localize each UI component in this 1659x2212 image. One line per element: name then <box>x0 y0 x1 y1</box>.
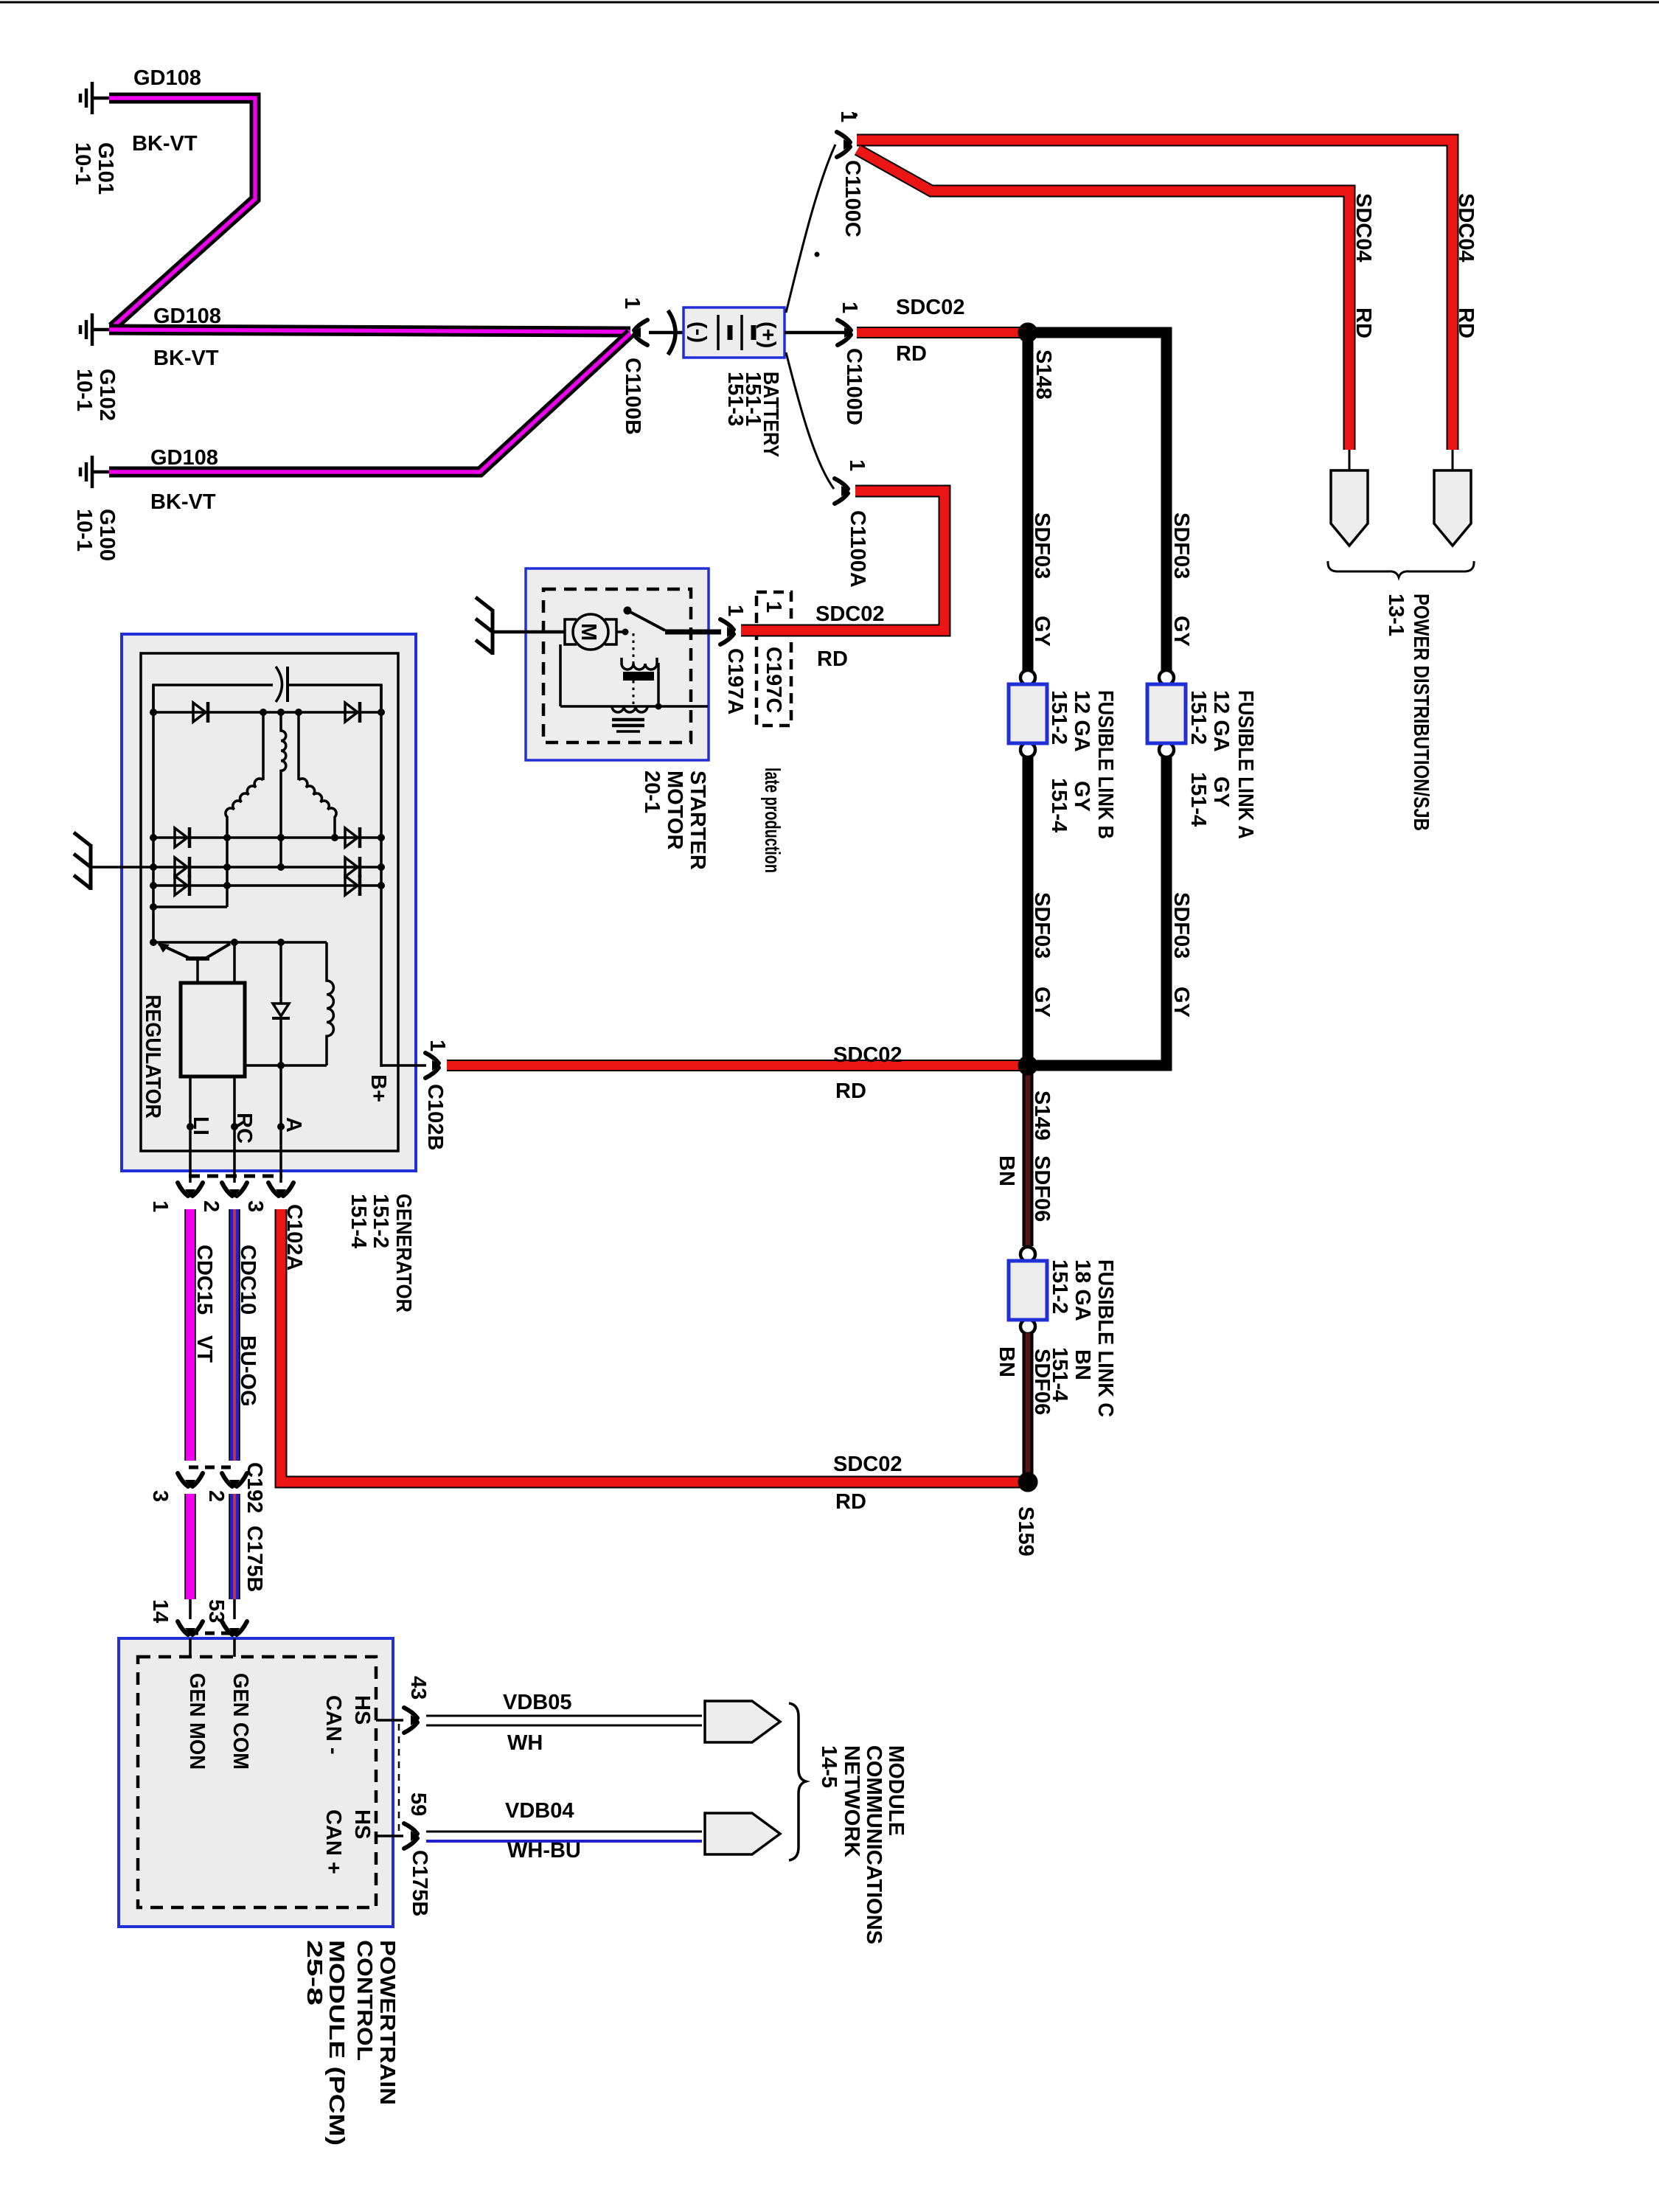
generator box <box>122 634 416 1171</box>
starter switch <box>616 630 625 633</box>
svg-text:13-1: 13-1 <box>1384 594 1408 636</box>
network pentagon connector (CAN-) <box>705 1701 780 1742</box>
svg-text:SDC02: SDC02 <box>833 1043 902 1067</box>
svg-text:MODULE: MODULE <box>884 1745 908 1836</box>
svg-text:BK-VT: BK-VT <box>150 490 216 514</box>
wire SDF03 GY (S148 right and down to fusible link A) <box>1032 333 1166 672</box>
connector C1100A <box>835 479 849 504</box>
ground G101 <box>80 82 92 114</box>
svg-text:C192: C192 <box>243 1462 266 1513</box>
splice S148 <box>1018 323 1038 343</box>
svg-text:12 GA: 12 GA <box>1209 690 1233 752</box>
svg-text:RD: RD <box>835 1079 866 1103</box>
svg-text:S159: S159 <box>1014 1506 1037 1557</box>
svg-text:151-2: 151-2 <box>1186 690 1210 745</box>
connector C175B bracket at PCM <box>189 1632 236 1635</box>
svg-text:SDF03: SDF03 <box>1030 892 1054 959</box>
connector C197A <box>720 619 735 644</box>
starter motor box <box>526 568 709 760</box>
svg-text:GEN MON: GEN MON <box>185 1673 209 1770</box>
svg-text:GY: GY <box>1209 776 1233 807</box>
generator field top wire <box>153 941 327 944</box>
starter internal wires <box>559 644 562 706</box>
svg-text:BN: BN <box>995 1346 1018 1377</box>
B+ output lead <box>381 1064 426 1067</box>
svg-text:C1100A: C1100A <box>846 510 869 588</box>
svg-text:A: A <box>282 1117 305 1133</box>
wire SDF03 GY (link A down and left to S149) <box>1033 757 1166 1065</box>
svg-text:C175B: C175B <box>408 1850 431 1916</box>
svg-text:151-3: 151-3 <box>723 372 747 426</box>
wire SDC02 RD (C197A to C1100A) <box>741 491 945 630</box>
battery <box>684 307 785 358</box>
PCM internal leads <box>189 1638 192 1657</box>
svg-text:BN: BN <box>995 1155 1018 1186</box>
svg-text:10-1: 10-1 <box>72 369 96 411</box>
svg-text:GEN COM: GEN COM <box>229 1673 252 1770</box>
svg-text:CAN -: CAN - <box>321 1695 345 1755</box>
connector C175B dashed link between pins 43 and 59 <box>398 1724 400 1832</box>
regulator box <box>181 983 245 1077</box>
svg-text:151-4: 151-4 <box>1186 772 1210 827</box>
svg-text:C197A: C197A <box>723 648 747 714</box>
connector C1100B (arrow + female arc) <box>633 320 647 345</box>
generator capacitor <box>276 667 282 702</box>
starter ground <box>476 597 493 655</box>
wire CDC10 BU-OG (C192 to PCM) <box>229 1494 240 1599</box>
svg-text:SDF03: SDF03 <box>1169 892 1193 959</box>
generator ground (chassis) <box>74 832 91 890</box>
svg-text:SDF03: SDF03 <box>1030 512 1054 579</box>
svg-text:(+): (+) <box>756 321 779 348</box>
connector C192 <box>189 1466 236 1470</box>
wire GD108 BK-VT from G101 <box>109 98 255 327</box>
generator pin A <box>279 1065 282 1183</box>
SJB brace <box>1328 561 1474 577</box>
splice S149 <box>1018 1056 1038 1076</box>
svg-text:LI: LI <box>189 1116 212 1135</box>
svg-text:BK-VT: BK-VT <box>132 132 198 156</box>
battery plus lead to C1100D <box>785 331 848 335</box>
svg-text:CAN +: CAN + <box>321 1809 345 1874</box>
svg-text:REGULATOR: REGULATOR <box>141 995 164 1119</box>
svg-text:BN: BN <box>1071 1349 1094 1380</box>
svg-text:1: 1 <box>425 1040 449 1051</box>
svg-text:CDC10: CDC10 <box>236 1245 260 1315</box>
ground G100 <box>80 456 92 488</box>
wire VDB05 WH <box>426 1715 702 1717</box>
svg-text:RD: RD <box>1352 307 1375 338</box>
connector C197C (dashed, late production) <box>757 592 791 726</box>
svg-text:GD108: GD108 <box>133 66 201 90</box>
wire CDC10 BU-OG (pin 2 to C192) <box>229 1209 240 1461</box>
splice S148 dot overlay <box>1018 323 1038 343</box>
wire SDF06 BN (S149 to fusible link C) <box>1023 1071 1034 1246</box>
svg-text:14-5: 14-5 <box>817 1745 841 1788</box>
generator branch wire <box>153 905 227 908</box>
generator stator windings <box>262 712 265 780</box>
svg-text:GY: GY <box>1169 616 1193 647</box>
svg-text:18 GA: 18 GA <box>1071 1259 1094 1321</box>
connector C1100D <box>838 320 852 345</box>
svg-text:STARTER: STARTER <box>686 771 709 870</box>
svg-text:G101: G101 <box>94 142 117 195</box>
starter output wire to C197A <box>665 630 721 635</box>
field coil <box>327 942 333 1065</box>
svg-text:10-1: 10-1 <box>71 142 94 185</box>
battery fanout line to C1100A <box>786 352 834 489</box>
svg-text:14: 14 <box>148 1599 172 1623</box>
svg-text:C1100B: C1100B <box>621 358 644 435</box>
svg-text:C102B: C102B <box>423 1084 447 1150</box>
svg-text:C1100C: C1100C <box>841 160 864 237</box>
svg-text:VT: VT <box>192 1335 216 1363</box>
wire GD108 BK-VT from G102 to C1100B <box>109 330 630 332</box>
wire SDF03 GY (link B down to S149) <box>1023 757 1034 1065</box>
transistor Q (regulator driver) <box>186 956 209 961</box>
generator right rail (B+) <box>380 685 383 1067</box>
svg-text:SDC04: SDC04 <box>1454 193 1478 262</box>
svg-text:GY: GY <box>1030 987 1054 1018</box>
svg-text:59: 59 <box>406 1792 430 1816</box>
PCM pin 53 lead <box>233 1599 236 1619</box>
fusible link B <box>1009 670 1047 757</box>
svg-text:RD: RD <box>1454 307 1478 338</box>
stray mark <box>815 252 820 257</box>
fusible link C <box>1009 1247 1047 1334</box>
svg-text:WH: WH <box>507 1731 543 1755</box>
svg-text:B+: B+ <box>366 1074 390 1102</box>
wire SDC02 RD battery to S148 <box>857 327 1025 338</box>
wire SDF06 BN (fusible link C to S159) <box>1023 1333 1034 1478</box>
network brace <box>789 1703 806 1860</box>
generator diode row 1 <box>153 711 381 714</box>
svg-text:25-8: 25-8 <box>302 1940 326 2006</box>
svg-text:C1100D: C1100D <box>842 348 866 425</box>
svg-text:POWER DISTRIBUTION/SJB: POWER DISTRIBUTION/SJB <box>1409 594 1433 831</box>
battery fanout line to C1100C <box>786 145 835 313</box>
svg-text:RD: RD <box>817 647 848 671</box>
wire CDC15 VT (C192 to PCM) <box>184 1494 196 1599</box>
generator diode row 4 <box>153 884 381 887</box>
svg-text:12 GA: 12 GA <box>1070 690 1093 752</box>
connector C102B <box>425 1053 440 1078</box>
svg-text:151-2: 151-2 <box>1047 690 1071 745</box>
svg-text:20-1: 20-1 <box>640 771 664 813</box>
svg-text:151-4: 151-4 <box>1047 778 1071 832</box>
generator pin LI <box>189 1077 192 1183</box>
svg-text:SDC02: SDC02 <box>896 296 965 319</box>
svg-text:1: 1 <box>620 297 644 309</box>
svg-text:GY: GY <box>1070 781 1093 812</box>
starter motor M <box>565 619 577 644</box>
splice S159 dot overlay <box>1018 1472 1038 1492</box>
splice S149 dot overlay <box>1018 1056 1038 1076</box>
svg-text:MOTOR: MOTOR <box>663 771 686 849</box>
generator top rail <box>153 685 273 712</box>
svg-text:POWERTRAIN: POWERTRAIN <box>375 1940 399 2105</box>
svg-text:MODULE (PCM): MODULE (PCM) <box>324 1940 348 2146</box>
svg-text:BU-OG: BU-OG <box>236 1335 260 1407</box>
SJB connector pentagon right <box>1452 450 1454 472</box>
connector C1100C <box>837 132 852 157</box>
svg-text:S148: S148 <box>1032 349 1055 400</box>
svg-text:43: 43 <box>406 1676 430 1700</box>
svg-text:(-): (-) <box>686 321 710 343</box>
svg-text:RC: RC <box>232 1113 256 1144</box>
svg-text:HS: HS <box>350 1809 374 1839</box>
svg-text:G102: G102 <box>95 369 119 421</box>
wire SDC04 RD lower (C1100C to SJB left) <box>858 150 1349 450</box>
wire GD108 BK-VT from G100 to C1100B <box>109 333 630 472</box>
svg-text:1: 1 <box>148 1200 172 1212</box>
svg-text:GENERATOR: GENERATOR <box>392 1194 415 1312</box>
svg-text:BK-VT: BK-VT <box>153 347 219 370</box>
wire SDC04 RD upper (C1100C to SJB right) <box>857 140 1453 450</box>
svg-text:GY: GY <box>1169 987 1193 1018</box>
svg-text:RD: RD <box>896 342 927 366</box>
PCM box <box>119 1638 393 1927</box>
svg-text:GD108: GD108 <box>153 305 221 328</box>
svg-text:3: 3 <box>148 1490 172 1502</box>
svg-text:SDC02: SDC02 <box>833 1453 902 1476</box>
wire ground to stator diodes <box>91 866 155 869</box>
wire SDF03 GY (S148 down to fusible link B) <box>1023 338 1034 672</box>
svg-text:GY: GY <box>1030 616 1054 647</box>
svg-text:151-2: 151-2 <box>1048 1259 1071 1314</box>
svg-text:VDB04: VDB04 <box>505 1799 574 1823</box>
starter solenoid <box>633 633 635 664</box>
generator pin RC <box>233 1077 236 1183</box>
svg-text:FUSIBLE LINK C: FUSIBLE LINK C <box>1093 1259 1117 1417</box>
connector C102A (dashed bracket + arrows) <box>189 1175 282 1178</box>
splice S159 <box>1018 1472 1038 1492</box>
svg-text:1: 1 <box>723 605 747 616</box>
wire CDC15 VT (pin 1 to C192) <box>184 1209 196 1461</box>
svg-text:151-4: 151-4 <box>347 1194 370 1248</box>
network pentagon connector (CAN+) <box>705 1813 780 1854</box>
svg-text:G100: G100 <box>95 509 119 561</box>
svg-text:COMMUNICATIONS: COMMUNICATIONS <box>862 1745 886 1944</box>
svg-text:C197C: C197C <box>762 647 785 713</box>
svg-text:53: 53 <box>204 1599 228 1623</box>
svg-text:S149: S149 <box>1030 1091 1054 1141</box>
svg-text:3: 3 <box>243 1200 267 1212</box>
wire SDC02 RD (pin 3 / C102A to S159) <box>281 1209 1025 1482</box>
svg-text:1: 1 <box>838 302 861 313</box>
svg-text:FUSIBLE LINK A: FUSIBLE LINK A <box>1234 690 1257 839</box>
page top border <box>0 1 1659 4</box>
fusible link A <box>1147 670 1186 757</box>
stray mark 2 <box>853 113 858 117</box>
svg-text:SDF03: SDF03 <box>1169 512 1193 579</box>
svg-text:151-2: 151-2 <box>369 1194 392 1248</box>
svg-text:VDB05: VDB05 <box>503 1691 572 1714</box>
svg-text:RD: RD <box>835 1490 866 1514</box>
svg-text:SDC02: SDC02 <box>815 602 885 626</box>
svg-text:1: 1 <box>845 459 869 471</box>
PCM pin 14 lead <box>189 1599 192 1619</box>
generator left rail <box>152 685 155 945</box>
ground G102 <box>80 313 92 346</box>
field bottom wire <box>245 1064 327 1067</box>
svg-text:SDF06: SDF06 <box>1030 1155 1054 1222</box>
svg-text:HS: HS <box>350 1695 374 1725</box>
svg-text:FUSIBLE LINK B: FUSIBLE LINK B <box>1093 690 1117 839</box>
wire SDC02 RD (B+ to S149) <box>447 1060 1025 1071</box>
svg-text:1: 1 <box>762 601 785 613</box>
generator diode row 2 <box>153 836 381 839</box>
svg-text:CDC15: CDC15 <box>192 1245 216 1315</box>
generator diode row 3 <box>153 866 381 869</box>
svg-text:10-1: 10-1 <box>72 509 96 552</box>
svg-text:C175B: C175B <box>243 1526 266 1592</box>
svg-text:NETWORK: NETWORK <box>840 1745 863 1857</box>
svg-text:GD108: GD108 <box>150 446 218 470</box>
svg-text:SDF06: SDF06 <box>1030 1349 1054 1415</box>
svg-text:M: M <box>577 623 600 641</box>
svg-text:2: 2 <box>199 1200 223 1212</box>
svg-text:SDC04: SDC04 <box>1352 193 1375 262</box>
wire VDB04 WH-BU <box>426 1831 702 1833</box>
svg-text:2: 2 <box>204 1490 228 1502</box>
svg-text:late production: late production <box>760 768 784 873</box>
SJB connector pentagon left <box>1349 450 1351 472</box>
flyback diode (field) <box>279 942 282 1004</box>
svg-text:CONTROL: CONTROL <box>352 1940 376 2061</box>
svg-text:WH-BU: WH-BU <box>507 1839 581 1863</box>
